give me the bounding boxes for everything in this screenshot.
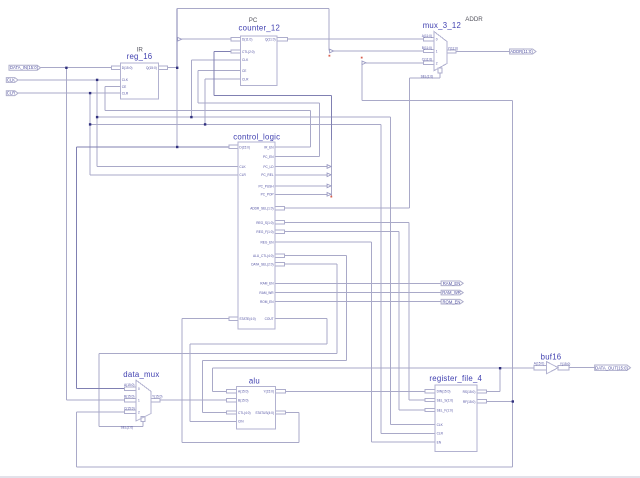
wire PC_POP tap bbox=[275, 193, 327, 195]
svg-text:buf16: buf16 bbox=[541, 352, 562, 361]
pin stub register_file RS(15:0) bbox=[477, 390, 486, 393]
svg-text:B(15:0): B(15:0) bbox=[238, 399, 248, 403]
pin stub control_logic REG_F(1:0) bbox=[275, 230, 284, 233]
svg-text:STATE(4:0): STATE(4:0) bbox=[239, 317, 255, 321]
register IR (reg_16) body bbox=[120, 63, 158, 99]
svg-text:ROM_EN: ROM_EN bbox=[443, 299, 461, 304]
pin stub control_logic STATE(4:0) bbox=[229, 317, 238, 320]
svg-text:control_logic: control_logic bbox=[233, 132, 280, 141]
pin stub data_mux B(15:0) bbox=[124, 399, 136, 402]
red open-end marker at PC CTL bus bottom bbox=[330, 196, 332, 198]
wire data_mux Y output to alu B input bbox=[160, 399, 226, 401]
wire bus tap into mux_3_12 B input bbox=[334, 50, 424, 52]
wire ALU_CTL from control_logic to alu CTL bbox=[203, 256, 347, 413]
pin labels data_mux bbox=[121, 383, 163, 430]
pin stub alu B(15:0) bbox=[226, 399, 236, 402]
pin stub PC CTL(2:0) bbox=[231, 50, 240, 53]
pin stub PC Q(11:0) bbox=[277, 38, 287, 41]
svg-text:C(11:0): C(11:0) bbox=[422, 58, 432, 62]
svg-text:mux_3_12: mux_3_12 bbox=[423, 21, 461, 30]
svg-text:CE: CE bbox=[122, 85, 126, 89]
output port ROM_EN bbox=[441, 299, 463, 304]
svg-text:SEL_F(1:0): SEL_F(1:0) bbox=[437, 408, 453, 412]
svg-text:DATA_IN(15:0): DATA_IN(15:0) bbox=[10, 65, 39, 70]
svg-text:0: 0 bbox=[138, 387, 140, 391]
svg-text:CLR: CLR bbox=[7, 91, 15, 96]
node junction RF/vertical bbox=[512, 400, 514, 402]
wire REG_S from control_logic to register_file SEL_S bbox=[284, 222, 425, 400]
svg-text:ALU_CTL(4:0): ALU_CTL(4:0) bbox=[253, 254, 274, 258]
svg-text:CLK: CLK bbox=[239, 165, 246, 169]
red open-end marker near mux C tap bbox=[361, 57, 363, 59]
wire PC Q output to mux_3_12 A input bbox=[287, 38, 423, 40]
pin stub PC D(11:0) bbox=[231, 38, 240, 41]
svg-text:CLK: CLK bbox=[7, 78, 15, 83]
svg-text:DATA_OUT(15:0): DATA_OUT(15:0) bbox=[595, 365, 628, 370]
pin stub alu STATUS(4:0) bbox=[276, 411, 286, 414]
svg-text:PC_LD: PC_LD bbox=[263, 165, 274, 169]
svg-text:Q(15:0): Q(15:0) bbox=[146, 66, 157, 70]
sheet border bottom bbox=[0, 476, 640, 478]
wire PC_PUSH tap bbox=[275, 185, 327, 187]
pin stub register_file DIN(15:0) bbox=[425, 390, 435, 393]
mux data_mux body bbox=[136, 380, 151, 421]
output port RAM_WR bbox=[441, 290, 463, 295]
svg-text:Y(15:0): Y(15:0) bbox=[264, 390, 274, 394]
wire CLR branch down to control_logic CLR bbox=[90, 93, 238, 175]
input port CLK bbox=[6, 78, 18, 83]
pin stub control_logic REG_S(1:0) bbox=[275, 221, 284, 224]
buffer buf16 body bbox=[546, 362, 558, 374]
wire PC_LD tap bbox=[275, 166, 327, 168]
svg-text:PC_PUSH: PC_PUSH bbox=[259, 184, 275, 188]
bus tap arrow into PC D bbox=[178, 37, 182, 41]
pin stub control_logic ADDR_SEL(1:0) bbox=[275, 207, 284, 210]
svg-text:B(15:0): B(15:0) bbox=[124, 395, 134, 399]
wire CLK trunk to PC CLK and register_file CLK bbox=[97, 60, 435, 425]
output port DATA_OUT(15:0) bbox=[595, 365, 631, 370]
svg-text:2: 2 bbox=[138, 410, 140, 414]
svg-text:CLR: CLR bbox=[437, 432, 444, 436]
svg-text:RAM_WR: RAM_WR bbox=[442, 290, 461, 295]
svg-text:CLK: CLK bbox=[242, 58, 249, 62]
pin labels buf16 bbox=[534, 362, 571, 366]
svg-text:ROM_EN: ROM_EN bbox=[260, 300, 274, 304]
bus tap arrow PC_REL bbox=[327, 173, 331, 177]
svg-text:Y(15:0): Y(15:0) bbox=[560, 362, 570, 366]
wire PC CTL bus from control taps bbox=[214, 52, 331, 141]
pin stub IR Q(15:0) bbox=[158, 66, 167, 69]
wire IR Q output to node bus bbox=[168, 67, 177, 69]
svg-text:SEL(1:0): SEL(1:0) bbox=[421, 75, 434, 79]
node junction IR bus/control D bbox=[176, 146, 178, 148]
svg-text:counter_12: counter_12 bbox=[239, 23, 281, 32]
wire alu STATUS to control_logic STATE bbox=[182, 319, 299, 443]
pin stub mux_3_12 SEL(1:0) bbox=[438, 68, 442, 73]
svg-text:RF(15:0): RF(15:0) bbox=[463, 400, 476, 404]
pin stub mux_3_12 B(11:0) bbox=[424, 49, 435, 52]
svg-text:EN: EN bbox=[437, 440, 442, 444]
svg-text:SEL_S(1:0): SEL_S(1:0) bbox=[437, 398, 453, 402]
svg-text:1: 1 bbox=[436, 50, 438, 54]
pin stub control_logic DATA_SEL(2:0) bbox=[275, 262, 284, 265]
wire RAM_WR to port bbox=[275, 292, 441, 294]
wire IR output trunk vertical x=177 bbox=[176, 8, 178, 67]
wire CLR trunk to PC CLR and register_file CLR bbox=[90, 79, 435, 433]
pin stub mux_3_12 C(11:0) bbox=[424, 61, 435, 64]
svg-text:Y(15:0): Y(15:0) bbox=[152, 395, 162, 399]
svg-text:data_mux: data_mux bbox=[123, 370, 159, 379]
svg-text:CLR: CLR bbox=[122, 91, 129, 95]
bus tap arrow PC_POP bbox=[327, 193, 331, 197]
pin stub IR D(15:0) bbox=[111, 66, 120, 69]
wire register_file RF output net to mux_3_12 C and data_mux C bbox=[76, 63, 512, 467]
pin stub data_mux C(15:0) bbox=[124, 410, 136, 413]
input port DATA_IN(15:0) bbox=[9, 65, 41, 70]
svg-text:DATA_SEL(2:0): DATA_SEL(2:0) bbox=[251, 263, 273, 267]
wire ADDR_SEL from control_logic to mux_3_12 SEL bbox=[284, 73, 440, 208]
wire REG_EN from control_logic to register_file EN bbox=[275, 242, 435, 442]
bus tap arrow into mux_3_12 C bbox=[362, 61, 366, 65]
svg-text:IR_EN: IR_EN bbox=[264, 145, 274, 149]
pin stub alu Y(15:0) bbox=[276, 390, 286, 393]
wire DATA_SEL from control_logic to data_mux SEL bbox=[99, 264, 337, 426]
pin stub data_mux Y(15:0) bbox=[151, 399, 160, 402]
input port CLR bbox=[6, 91, 18, 96]
svg-text:CTL(4:0): CTL(4:0) bbox=[238, 411, 251, 415]
wire DATA_IN port to IR D pin bbox=[41, 67, 121, 69]
bus tap arrow into mux_3_12 B bbox=[330, 49, 334, 53]
svg-text:PC_POP: PC_POP bbox=[261, 193, 274, 197]
pin stub buf16 Y(15:0) bbox=[558, 365, 569, 370]
pin labels register_file_4 bbox=[437, 390, 476, 445]
svg-text:PC_EN: PC_EN bbox=[263, 155, 274, 159]
svg-text:alu: alu bbox=[249, 377, 260, 386]
wire mux_3_12 Y output to ADDR port bbox=[456, 51, 509, 53]
wire REG_F from control_logic to register_file SEL_F bbox=[284, 232, 425, 410]
svg-text:1: 1 bbox=[138, 399, 140, 403]
bus tap arrow PC_LD bbox=[327, 165, 331, 169]
svg-text:CLR: CLR bbox=[242, 78, 249, 82]
node junction CLK/IR bbox=[96, 79, 98, 81]
node junction CLR/IR bbox=[89, 92, 91, 94]
block register_file_4 body bbox=[435, 385, 477, 451]
svg-text:Y(11:0): Y(11:0) bbox=[448, 46, 458, 50]
svg-text:ADDR(11:0): ADDR(11:0) bbox=[510, 49, 533, 54]
svg-text:CE: CE bbox=[242, 69, 246, 73]
svg-text:REG_EN: REG_EN bbox=[260, 241, 274, 245]
wire CLK port to IR CLK pin bbox=[18, 79, 120, 81]
pin stub mux_3_12 Y(11:0) bbox=[447, 50, 456, 53]
svg-text:CLR: CLR bbox=[239, 173, 246, 177]
pin stub register_file SEL_S(1:0) bbox=[425, 398, 435, 401]
svg-text:ADDR: ADDR bbox=[465, 16, 483, 23]
pin labels reg_16 bbox=[122, 66, 157, 95]
pin stub register_file RF(15:0) bbox=[477, 400, 486, 403]
svg-text:A(15:0): A(15:0) bbox=[534, 362, 544, 366]
mux ADDR (mux_3_12) body bbox=[434, 32, 447, 71]
svg-text:REG_F(1:0): REG_F(1:0) bbox=[256, 230, 273, 234]
svg-text:B(11:0): B(11:0) bbox=[422, 46, 432, 50]
wire RAM_EN to port bbox=[275, 282, 441, 284]
svg-text:PC_REL: PC_REL bbox=[261, 173, 274, 177]
wire IR_EN from control_logic to IR CE bbox=[105, 87, 311, 147]
svg-text:RAM_EN: RAM_EN bbox=[260, 282, 274, 286]
node junction CLR trunk bbox=[89, 123, 91, 125]
pin stub control_logic ALU_CTL(4:0) bbox=[275, 254, 284, 257]
svg-text:A(15:0): A(15:0) bbox=[124, 383, 134, 387]
pin labels counter_12 bbox=[242, 38, 276, 82]
bus tap arrow PC_PUSH bbox=[327, 184, 331, 188]
pin labels control_logic right bbox=[250, 145, 274, 321]
svg-text:2: 2 bbox=[436, 61, 438, 65]
svg-text:RS(15:0): RS(15:0) bbox=[463, 390, 476, 394]
svg-text:CLK: CLK bbox=[122, 78, 129, 82]
wire register_file RS output loop to alu A and buf16 A bbox=[213, 368, 534, 391]
counter PC (counter_12) body bbox=[240, 36, 277, 86]
svg-text:ADDR_SEL(1:0): ADDR_SEL(1:0) bbox=[250, 207, 273, 211]
wire IR output bus to control_logic D and data_mux A bbox=[77, 147, 230, 389]
node junction CLR/PC riser bbox=[204, 123, 206, 125]
svg-text:D(15:0): D(15:0) bbox=[122, 66, 133, 70]
wire buf16 Y to DATA_OUT port bbox=[569, 367, 595, 369]
svg-text:CIN: CIN bbox=[238, 420, 244, 424]
svg-text:reg_16: reg_16 bbox=[127, 52, 153, 61]
pin stub buf16 A(15:0) bbox=[534, 365, 547, 370]
svg-text:RAM_EN: RAM_EN bbox=[443, 281, 460, 286]
pin stub mux_3_12 A(11:0) bbox=[424, 38, 435, 41]
wire PC_REL tap bbox=[275, 174, 327, 176]
node junction CLK trunk bbox=[96, 116, 98, 118]
pin labels mux_3_12 bbox=[421, 34, 458, 79]
red open-end marker below mux B tap bbox=[329, 55, 331, 57]
svg-text:Q(11:0): Q(11:0) bbox=[265, 38, 276, 42]
wire ROM_EN to port bbox=[275, 301, 441, 303]
pin labels alu bbox=[238, 390, 274, 424]
svg-text:REG_S(1:0): REG_S(1:0) bbox=[256, 221, 273, 225]
svg-text:CTL(2:0): CTL(2:0) bbox=[242, 50, 255, 54]
output port RAM_EN bbox=[441, 281, 463, 286]
block alu body bbox=[236, 386, 275, 429]
pin stub alu A(15:0) bbox=[226, 390, 236, 393]
svg-text:D(15:0): D(15:0) bbox=[239, 145, 250, 149]
svg-text:CLK: CLK bbox=[437, 423, 444, 427]
pin stub register_file SEL_F(1:0) bbox=[425, 408, 435, 411]
svg-text:COUT: COUT bbox=[265, 317, 274, 321]
wire CLR port to IR CLR pin bbox=[18, 92, 120, 94]
svg-text:SEL(2:0): SEL(2:0) bbox=[121, 426, 134, 430]
svg-text:0: 0 bbox=[436, 38, 438, 42]
svg-text:C(15:0): C(15:0) bbox=[124, 406, 135, 410]
wire DATA_IN branch down to data_mux B bbox=[66, 68, 124, 401]
svg-text:D(11:0): D(11:0) bbox=[242, 38, 252, 42]
svg-text:STATUS(4:0): STATUS(4:0) bbox=[255, 411, 274, 415]
block control_logic body bbox=[238, 142, 275, 329]
node junction CLK/PC riser bbox=[190, 116, 192, 118]
node junction IR Q bus bbox=[176, 67, 178, 69]
wire IR output top loop to mux_3_12 B tap bbox=[177, 8, 329, 50]
wire IR bus tap into PC D input bbox=[181, 38, 231, 40]
wire alu Y output to register_file DIN bbox=[286, 390, 426, 392]
wire CLK branch down to control_logic CLK bbox=[97, 80, 238, 167]
wire PC_EN from control_logic to PC CE bbox=[198, 70, 320, 156]
node junction RS/buf16 bbox=[499, 367, 501, 369]
svg-text:RAM_WR: RAM_WR bbox=[259, 291, 274, 295]
svg-text:A(11:0): A(11:0) bbox=[422, 34, 432, 38]
node junction DATA_IN/data_mux B bbox=[65, 67, 67, 69]
output port ADDR(11:0) bbox=[510, 49, 536, 54]
pin labels control_logic left bbox=[239, 145, 255, 321]
svg-text:A(15:0): A(15:0) bbox=[238, 390, 248, 394]
wire COUT from control_logic to alu CIN bbox=[190, 319, 327, 422]
svg-text:DIN(15:0): DIN(15:0) bbox=[437, 390, 451, 394]
pin stub control_logic D(15:0) bbox=[229, 145, 238, 148]
pin stub alu CTL(4:0) bbox=[226, 411, 236, 414]
svg-text:register_file_4: register_file_4 bbox=[429, 374, 482, 383]
pin stub data_mux A(15:0) bbox=[124, 387, 136, 390]
pin stub data_mux SEL(2:0) bbox=[141, 416, 145, 421]
